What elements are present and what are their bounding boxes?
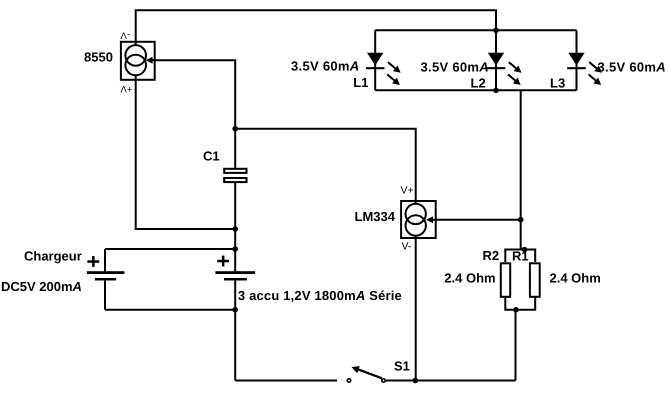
LED L1 xyxy=(366,53,403,88)
svg-text:L2: L2 xyxy=(471,76,486,91)
svg-text:R2: R2 xyxy=(483,248,500,263)
wire L2 branch xyxy=(495,30,497,90)
LED L3 xyxy=(567,53,604,88)
junction node emitter wire xyxy=(232,226,238,232)
wire charger negative rail xyxy=(105,309,235,311)
plus sign of charger xyxy=(87,256,99,267)
wire charger positive rail xyxy=(105,248,235,250)
junction node C1 top xyxy=(232,126,238,132)
svg-text:3.5V 60mA: 3.5V 60mA xyxy=(598,59,666,74)
wire LED rail down to node B xyxy=(520,90,522,249)
junction node at resistor bottom xyxy=(513,307,519,313)
wire LED anode rail xyxy=(375,29,576,31)
wire battery negative lead to bottom rail xyxy=(234,281,236,381)
svg-text:V+: V+ xyxy=(401,184,414,196)
wire resistor top bracket xyxy=(505,250,535,263)
current regulator U1 LM334 body xyxy=(401,201,436,238)
wire bottom rail right of switch xyxy=(386,380,516,382)
LED L2 xyxy=(487,53,524,88)
svg-text:3.5V 60mA: 3.5V 60mA xyxy=(421,59,489,74)
svg-text:3 accu 1,2V 1800mA Série: 3 accu 1,2V 1800mA Série xyxy=(238,288,402,303)
junction node at LED cathode rail xyxy=(493,88,499,94)
junction node at LED anode rail xyxy=(493,28,499,34)
resistor R2 xyxy=(501,263,510,297)
svg-text:Λ+: Λ+ xyxy=(121,84,133,95)
svg-text:S1: S1 xyxy=(394,359,410,374)
wire C1 node to LM334 V+ lead xyxy=(235,129,416,205)
wire C1 top lead xyxy=(234,129,236,169)
charger source battery symbol xyxy=(87,271,125,280)
capacitor C1 xyxy=(224,169,246,182)
svg-text:LM334: LM334 xyxy=(355,209,396,224)
wire charger bottom lead xyxy=(104,281,106,310)
svg-text:8550: 8550 xyxy=(84,49,113,64)
svg-text:V-: V- xyxy=(402,240,412,252)
junction node charger positive xyxy=(232,246,238,252)
svg-text:DC5V 200mA: DC5V 200mA xyxy=(1,279,82,294)
wire Q1 emitter down and over to battery column xyxy=(136,75,236,230)
switch S1 xyxy=(347,366,385,382)
battery B1 symbol (3 accu) xyxy=(215,271,255,280)
wire top rail from Q1 collector to LED bank xyxy=(136,10,496,46)
wire Q1 base to C1 node xyxy=(149,60,235,129)
wire L1 branch xyxy=(374,30,376,90)
junction node B at LM334 set wire xyxy=(518,217,524,223)
wire charger top lead xyxy=(104,249,106,272)
wire node B to LM334 set pin xyxy=(430,219,521,221)
wire LED cathode rail xyxy=(375,89,576,91)
plus sign of battery B1 xyxy=(217,256,229,267)
wire L3 branch xyxy=(576,30,578,90)
svg-text:2.4 Ohm: 2.4 Ohm xyxy=(444,270,495,285)
svg-text:L1: L1 xyxy=(353,75,368,90)
svg-text:C1: C1 xyxy=(203,149,220,164)
junction node charger negative xyxy=(232,307,238,313)
wire bottom rail left of switch xyxy=(235,380,337,382)
resistor R1 xyxy=(530,263,540,297)
wire LM334 V- lead to bottom rail xyxy=(415,235,417,381)
wire resistor bottom to bottom rail xyxy=(515,310,517,381)
junction node at bottom rail LM334 xyxy=(413,378,419,384)
svg-text:Chargeur: Chargeur xyxy=(24,249,82,264)
wire C1 bottom lead to battery column xyxy=(234,182,236,272)
svg-text:2.4 Ohm: 2.4 Ohm xyxy=(550,270,601,285)
junction node at resistor top xyxy=(522,247,528,253)
svg-text:L3: L3 xyxy=(550,76,565,91)
svg-text:3.5V 60mA: 3.5V 60mA xyxy=(291,58,359,73)
wire resistor bottom bracket xyxy=(505,298,535,310)
transistor Q1 8550 body xyxy=(121,42,155,80)
